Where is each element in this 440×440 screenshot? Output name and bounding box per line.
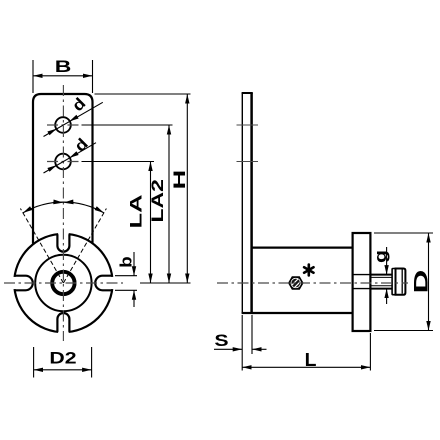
svg-text:d: d [70,134,91,155]
dimension g [386,247,388,275]
leader d1 [44,102,103,136]
angle dimension arc [23,202,104,213]
grease fitting circle [290,277,301,288]
arc arrowhead right end [95,206,105,215]
svg-text:LA2: LA2 [149,179,168,222]
svg-text:L: L [305,350,317,370]
side view centerline [217,282,408,284]
center hole (thick ring) [52,272,74,294]
extension line hole d2 [82,161,155,163]
dimension B [32,60,34,93]
dimension LA2 [168,125,170,283]
svg-text:b: b [116,256,135,268]
hole centerline tick 1 [237,124,259,126]
dimension D [374,232,433,234]
swivel angle dashed line right [63,209,106,284]
side plate left edge [241,93,243,313]
dimension D2 [33,347,35,378]
hex nut [396,269,406,295]
hole d2 centerline [47,161,79,163]
vertical centerline [62,85,64,341]
dimension L [369,333,371,371]
threaded stud [370,274,392,276]
horizontal centerline [4,282,123,284]
stud hole through flange [353,274,371,276]
swivel angle dashed line left [20,209,63,284]
grease fitting hex [289,277,303,289]
dimension b [115,275,137,277]
extension line hole d1 [82,124,173,126]
dimension LA [150,162,152,284]
right slot [95,276,112,291]
asterisk marker [304,265,313,276]
washer [392,269,395,295]
side plate top edge [242,92,253,94]
svg-text:g: g [372,250,391,263]
svg-text:S: S [214,332,228,351]
left slot [14,276,33,291]
slot gap patches [11,277,25,289]
reference line at flange center [140,282,191,284]
side plate right edge [250,93,253,313]
svg-text:D: D [409,270,431,294]
svg-text:D2: D2 [49,349,76,368]
arc arrowhead top-left (tip at centerline) [53,200,63,205]
hole centerline tick 2 [237,161,259,163]
leader d2 [44,143,97,173]
extension line plate top [95,93,191,95]
flange [353,233,371,331]
top slot [57,234,69,252]
arc arrowhead top-right (tip at centerline) [63,200,73,205]
dimension H [186,94,188,283]
bolt hole d2 [55,154,71,170]
svg-text:B: B [55,58,72,77]
svg-text:LA: LA [126,194,146,228]
dimension S [241,315,243,371]
arc arrowhead left end [22,206,32,215]
side plate bottom edge [242,312,253,314]
bottom slot [57,313,69,332]
mounting plate outline [33,94,93,244]
hub inner circle [35,255,91,311]
grease fitting hatched ball [291,278,302,289]
hole d1 centerline [47,124,79,126]
nut chamfer line [401,270,403,294]
swivel body bottom [252,312,353,314]
svg-text:H: H [169,170,188,190]
bolt hole d1 [55,117,71,133]
flange outer circle [14,234,112,332]
swivel body top [252,247,353,249]
